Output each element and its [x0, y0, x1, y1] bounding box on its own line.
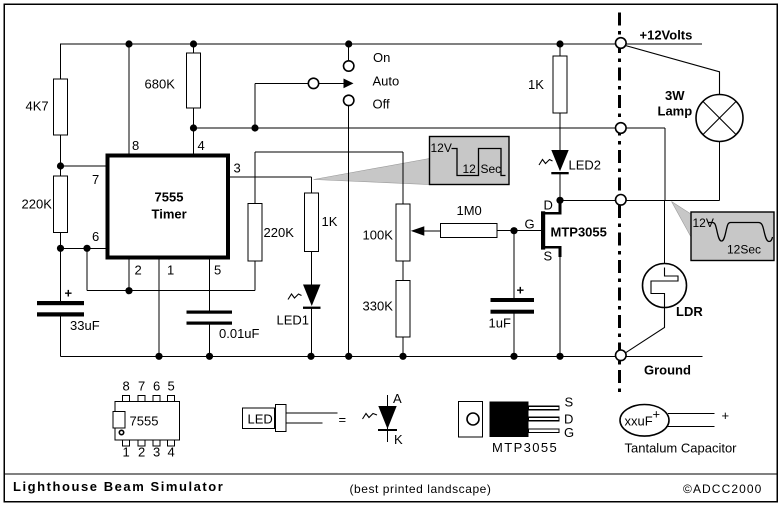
terminal +12Volts	[616, 38, 627, 49]
wire 1K1 bottom to LED1	[311, 252, 313, 285]
pin 5 label	[214, 263, 221, 278]
LED package symbol	[243, 405, 338, 432]
resistor 330K	[363, 281, 411, 338]
wire drain rail	[560, 199, 720, 201]
svg-text:12V: 12V	[693, 216, 714, 230]
svg-text:(best printed landscape): (best printed landscape)	[350, 482, 492, 496]
node junction pin2 return	[83, 245, 90, 252]
wire 680K top	[193, 44, 195, 53]
svg-text:4: 4	[198, 138, 205, 153]
wire pin2 return riser	[86, 248, 88, 290]
resistor 220K left	[22, 176, 68, 233]
pin 8 label	[132, 138, 139, 153]
svg-text:+: +	[517, 283, 525, 298]
svg-text:+12Volts: +12Volts	[640, 28, 693, 43]
svg-text:S: S	[544, 249, 553, 264]
wire 4K7 top drop	[60, 44, 62, 79]
wire LED1 to ground	[311, 309, 313, 357]
svg-text:1uF: 1uF	[489, 316, 511, 331]
node junction ground Off	[345, 353, 352, 360]
wire pot wiper with arrowhead	[411, 226, 441, 236]
svg-text:1: 1	[167, 263, 174, 278]
svg-text:5: 5	[214, 263, 221, 278]
wire On stub	[348, 44, 350, 61]
svg-text:7555: 7555	[130, 414, 159, 429]
label Ground	[644, 363, 691, 378]
resistor 1K right	[528, 56, 567, 113]
resistor 220K right	[248, 204, 294, 262]
wire 1M0 to gate node	[497, 230, 542, 232]
resistor 680K	[145, 53, 201, 108]
node junction top rail pin8	[125, 40, 132, 47]
wire pin7	[61, 165, 108, 167]
svg-text:8: 8	[123, 379, 130, 394]
svg-text:2: 2	[135, 263, 142, 278]
wire source to ground	[559, 256, 561, 356]
svg-text:3: 3	[234, 161, 241, 176]
wire 680K bottom to pin4	[193, 108, 195, 154]
label Auto	[373, 74, 400, 89]
svg-text:MTP3055: MTP3055	[492, 440, 558, 455]
svg-text:+: +	[65, 286, 73, 301]
svg-text:12: 12	[463, 162, 477, 176]
wire pin1 to ground	[158, 259, 160, 356]
label best printed landscape	[350, 482, 492, 496]
label Off	[373, 97, 390, 112]
resistor 4K7	[26, 79, 68, 135]
svg-text:LED: LED	[248, 412, 273, 427]
wire Off to ground rail	[348, 106, 350, 357]
svg-text:330K: 330K	[363, 299, 394, 314]
svg-text:33uF: 33uF	[70, 318, 100, 333]
pin 7 label	[92, 172, 99, 187]
svg-text:Tantalum Capacitor: Tantalum Capacitor	[625, 441, 738, 456]
transistor package TO-220 MTP3055	[459, 395, 575, 456]
svg-text:K: K	[394, 432, 403, 447]
wire 33uF bottom	[60, 317, 62, 357]
svg-text:1K: 1K	[528, 77, 544, 92]
resistor 100K	[363, 204, 411, 261]
svg-text:+: +	[722, 408, 730, 423]
label title Lighthouse Beam Simulator	[13, 479, 224, 494]
wire 330K bottom	[402, 337, 404, 356]
svg-text:7: 7	[138, 379, 145, 394]
pin 2 label	[135, 263, 142, 278]
svg-text:6: 6	[92, 229, 99, 244]
svg-text:Lighthouse Beam Simulator: Lighthouse Beam Simulator	[13, 479, 224, 494]
pin 1 label	[167, 263, 174, 278]
svg-text:Sec: Sec	[481, 162, 502, 176]
wire 220K2 bottom drop	[254, 261, 256, 291]
node junction ground LED1	[307, 353, 314, 360]
svg-text:©ADCC2000: ©ADCC2000	[683, 482, 762, 496]
node junction 220K bottom	[57, 245, 64, 252]
svg-text:LDR: LDR	[676, 304, 703, 319]
svg-text:5: 5	[168, 379, 175, 394]
label +12Volts	[640, 28, 693, 43]
node junction drain	[556, 197, 563, 204]
svg-text:G: G	[525, 217, 535, 232]
wire pin2 return horizontal	[87, 290, 255, 292]
wire pin2 vertical	[128, 259, 130, 291]
wire terminal2 link to lamp return	[626, 128, 665, 200]
callout waveform lamp 12V 12Sec	[672, 202, 775, 261]
wire timing top link	[255, 151, 403, 153]
node junction top rail 1K	[556, 40, 563, 47]
wire gate node to 1uF	[513, 231, 515, 298]
transistor Q1 MTP3055	[541, 202, 607, 257]
svg-text:100K: 100K	[363, 228, 394, 243]
svg-text:4K7: 4K7	[26, 99, 49, 114]
wire pin6	[61, 247, 108, 249]
node junction auto drop	[251, 124, 258, 131]
label copyright ADCC2000	[683, 482, 762, 496]
svg-text:1K: 1K	[322, 214, 338, 229]
svg-text:xxuF: xxuF	[625, 414, 653, 429]
label equals	[339, 412, 347, 427]
svg-text:=: =	[339, 412, 347, 427]
wire 4K7 bottom	[60, 135, 62, 176]
svg-text:220K: 220K	[264, 225, 295, 240]
svg-text:2: 2	[138, 445, 145, 460]
wire pin8 vertical	[128, 44, 130, 154]
IC op 7555 timer U1	[108, 156, 229, 258]
terminal switch return	[616, 123, 627, 134]
svg-text:12Sec: 12Sec	[727, 243, 761, 257]
pin 3 label	[234, 161, 241, 176]
svg-text:1: 1	[123, 445, 130, 460]
capacitor 1uF	[489, 283, 535, 331]
wire LDR bottom diagonal to ground	[626, 308, 665, 353]
wire LED2 to drain node	[559, 174, 561, 200]
node junction top rail 680K	[190, 40, 197, 47]
pin 6 label	[92, 229, 99, 244]
terminal lamp drain	[616, 195, 627, 206]
wire pin3 output	[230, 177, 312, 193]
wire 220K2 riser	[254, 152, 256, 204]
svg-text:680K: 680K	[145, 77, 176, 92]
node junction gate	[510, 227, 517, 234]
label D drain	[544, 198, 553, 213]
capacitor tantalum symbol	[620, 405, 737, 456]
svg-text:1M0: 1M0	[457, 203, 482, 218]
wire 0.01uF bottom	[209, 325, 211, 357]
dash-dot separator line	[618, 13, 621, 394]
svg-text:0.01uF: 0.01uF	[219, 326, 260, 341]
label S source	[544, 249, 553, 264]
wire lamp feed diagonal	[626, 46, 720, 95]
svg-text:3: 3	[153, 445, 160, 460]
node junction 4K7-220K	[57, 162, 64, 169]
IC package DIP-8 7555	[113, 396, 180, 447]
node junction ground 330K	[399, 353, 406, 360]
svg-text:7555: 7555	[155, 190, 184, 205]
pin labels 8 7 6 5	[123, 379, 175, 394]
node junction ground source	[556, 353, 563, 360]
switch arrowhead auto	[344, 79, 354, 89]
svg-text:+: +	[653, 407, 661, 422]
pin labels 1 2 3 4	[123, 445, 175, 460]
wire 100K-330K link	[402, 261, 404, 281]
capacitor 0.01uF	[187, 311, 260, 342]
wire LDR top	[664, 200, 666, 263]
node junction ground pin1	[155, 353, 162, 360]
wire auto switch drop	[254, 83, 256, 128]
LED schematic symbol	[363, 391, 404, 447]
node junction top rail switch	[345, 40, 352, 47]
svg-text:D: D	[544, 198, 553, 213]
resistor 1M0	[441, 203, 498, 238]
wire 100K top drop	[402, 152, 404, 204]
node junction ground 1uF	[510, 353, 517, 360]
svg-text:8: 8	[132, 138, 139, 153]
wire auto switch horizontal	[255, 82, 345, 84]
title bar separator	[4, 473, 777, 475]
switch contact circle On	[344, 61, 354, 71]
wire pin5 to cap	[209, 259, 211, 311]
svg-text:12V: 12V	[431, 141, 452, 155]
svg-text:Off: Off	[373, 97, 390, 112]
svg-text:LED2: LED2	[569, 158, 602, 173]
svg-text:Auto: Auto	[373, 74, 400, 89]
svg-text:MTP3055: MTP3055	[551, 225, 607, 240]
resistor 1K left	[305, 193, 338, 252]
LED LED1	[277, 285, 321, 328]
terminal ground	[616, 350, 627, 361]
svg-text:4: 4	[168, 445, 175, 460]
svg-text:On: On	[373, 50, 390, 65]
callout waveform pin3 12V 12Sec	[314, 137, 510, 185]
wire 220K1 bottom to 33uF	[60, 233, 62, 302]
svg-text:6: 6	[153, 379, 160, 394]
wire ground rail	[61, 355, 703, 357]
svg-text:220K: 220K	[22, 197, 53, 212]
svg-text:3W: 3W	[665, 88, 685, 103]
svg-text:Ground: Ground	[644, 363, 691, 378]
wire 1uF bottom	[513, 314, 515, 357]
wire pin4 rail to terminal	[194, 127, 616, 129]
svg-text:Lamp: Lamp	[658, 104, 693, 119]
wire lamp bottom	[719, 142, 721, 201]
wire 1K2 bottom to LED2	[559, 113, 561, 150]
lamp 3W	[658, 88, 744, 142]
svg-text:7: 7	[92, 172, 99, 187]
LED LED2	[539, 150, 601, 174]
label G gate	[525, 217, 535, 232]
capacitor 33uF	[37, 286, 100, 334]
photoresistor LDR	[643, 264, 704, 320]
switch contact circle auto	[308, 78, 318, 88]
wire +12V top rail	[60, 43, 702, 45]
svg-text:S: S	[565, 395, 574, 410]
svg-text:LED1: LED1	[277, 313, 310, 328]
pin 4 label	[198, 138, 205, 153]
switch contact circle Off	[344, 95, 354, 105]
label On	[373, 50, 390, 65]
svg-text:Timer: Timer	[152, 207, 187, 222]
svg-text:G: G	[564, 425, 574, 440]
svg-text:A: A	[393, 391, 402, 406]
wire 1K2 top	[559, 44, 561, 56]
node junction pin2	[125, 287, 132, 294]
node junction 680K pin4	[190, 124, 197, 131]
node junction ground 0.01uF	[206, 353, 213, 360]
